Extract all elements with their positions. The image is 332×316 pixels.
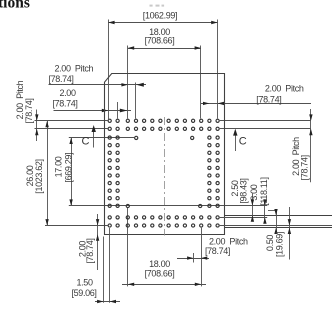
extension line row 13 (220, 217, 267, 219)
extension line, hole col 3 (18.00 dim left) (127, 46, 129, 119)
dimension 17.00 [669.29] left (rotated) (53, 138, 73, 206)
svg-text:[708.66]: [708.66] (145, 269, 175, 279)
extension line, hole col 12 (18.00 dim right) (200, 46, 202, 119)
svg-text:tions: tions (0, 0, 30, 11)
cropped heading text "tions" (0, 0, 30, 11)
svg-text:[669.29]: [669.29] (64, 153, 74, 183)
package outline (chamfered top-left, right-side tab) (105, 74, 225, 235)
label C right (239, 135, 247, 147)
extension line, hole col 2 (117, 102, 119, 119)
extension line row 12 (69, 205, 267, 207)
dimension 0.50 [19.69] (rotated) (265, 207, 291, 260)
svg-text:C: C (239, 135, 247, 147)
vertical centerline (164, 117, 166, 236)
corner index holes (126, 136, 202, 207)
dimension 18.00 / [708.66] bottom (122, 259, 206, 286)
extension line body left edge bottom (103, 237, 105, 303)
svg-text:[118.11]: [118.11] (259, 177, 269, 205)
extension line row 2 right (220, 128, 311, 130)
svg-text:[1023.62]: [1023.62] (34, 159, 44, 193)
section arrow C left (92, 125, 96, 148)
extension line, left end of overall dim (x=108.2) (108, 20, 110, 120)
extension line row 14 left (45, 225, 108, 227)
svg-text:[1062.99]: [1062.99] (143, 10, 177, 20)
extension line col 12 bottom (201, 228, 203, 287)
svg-text:17.00: 17.00 (53, 156, 63, 177)
svg-text:3.00: 3.00 (249, 184, 259, 200)
svg-text:1.50: 1.50 (77, 277, 93, 287)
dimension 2.50 [98.43] (rotated) (230, 178, 254, 221)
dimension 2.00 Pitch [78.74] left (rotated) (15, 80, 39, 141)
dimension 2.00 [78.74] bottom-left (rotated) (78, 214, 100, 270)
mating profile edge top (cropped right) (224, 215, 332, 217)
leader segment near 0.50 dim (268, 210, 276, 212)
extension line row 1 right (220, 120, 311, 122)
extension line, right end of overall dim / hole col 14 (217, 20, 219, 119)
dimension 3.00 [118.11] (rotated) (249, 177, 269, 223)
svg-text:18.00: 18.00 (149, 259, 170, 269)
dimension 18.00 / [708.66] top (128, 27, 201, 50)
hole columns left (cols 1-2, rows 3-12) (108, 136, 119, 207)
mating profile edge bottom (cropped right) (224, 227, 332, 229)
hole columns right (cols 13-14, rows 3-12) (208, 136, 219, 207)
svg-text:2.00 Pitch: 2.00 Pitch (55, 63, 94, 73)
stray cropped marks above [1062.99] label (150, 5, 165, 7)
svg-text:2.00: 2.00 (60, 88, 76, 98)
svg-text:[59.06]: [59.06] (72, 288, 97, 298)
extension line col 3 bottom (127, 208, 129, 286)
svg-text:[98.43]: [98.43] (239, 178, 249, 203)
svg-text:2.00 Pitch: 2.00 Pitch (265, 84, 304, 94)
dimension 2.00 Pitch [78.74] right (rotated) (291, 109, 312, 182)
svg-text:[19.69]: [19.69] (274, 232, 284, 257)
label C left (82, 135, 90, 147)
dimension line at x=276 (row13/arm) (274, 209, 277, 234)
svg-text:[78.74]: [78.74] (49, 74, 74, 84)
dimension 26.00 [1023.62] left (rotated) (25, 121, 49, 226)
dimension [1062.99] overall width (108, 10, 217, 24)
svg-text:C: C (82, 135, 90, 147)
hole rows top (rows 1-2, cols 1-14) (108, 119, 219, 130)
svg-text:[78.74]: [78.74] (24, 98, 34, 123)
svg-text:[78.74]: [78.74] (53, 99, 78, 109)
dimension 2.00 [78.74] upper-left (53, 88, 132, 112)
extension line row 2 left (35, 128, 108, 130)
svg-text:[78.74]: [78.74] (205, 246, 230, 256)
extension line row 1 left (35, 120, 108, 122)
svg-text:[78.74]: [78.74] (299, 155, 309, 180)
svg-text:[78.74]: [78.74] (256, 94, 281, 104)
extension line row 14 right (220, 225, 332, 227)
section arrow C right (233, 129, 237, 151)
extension line row 3 (69, 137, 134, 139)
dimension 2.00 Pitch [78.74] bottom (177, 236, 248, 259)
dimension 1.50 [59.06] (72, 277, 121, 303)
hole rows bottom (rows 13-14, cols 1-14) (108, 216, 219, 227)
svg-text:[708.66]: [708.66] (145, 36, 175, 46)
svg-text:[78.74]: [78.74] (85, 238, 95, 263)
extension line, hole col 4 (pitch dim) (135, 83, 137, 119)
extension line col 11 bottom (pitch ref) (193, 253, 195, 263)
svg-text:2.00 Pitch: 2.00 Pitch (209, 236, 248, 246)
dimension 2.00 Pitch [78.74] top-right (201, 84, 311, 106)
dimension 2.00 Pitch [78.74] top-left (49, 63, 147, 87)
extension line col 1 bottom (109, 228, 111, 303)
